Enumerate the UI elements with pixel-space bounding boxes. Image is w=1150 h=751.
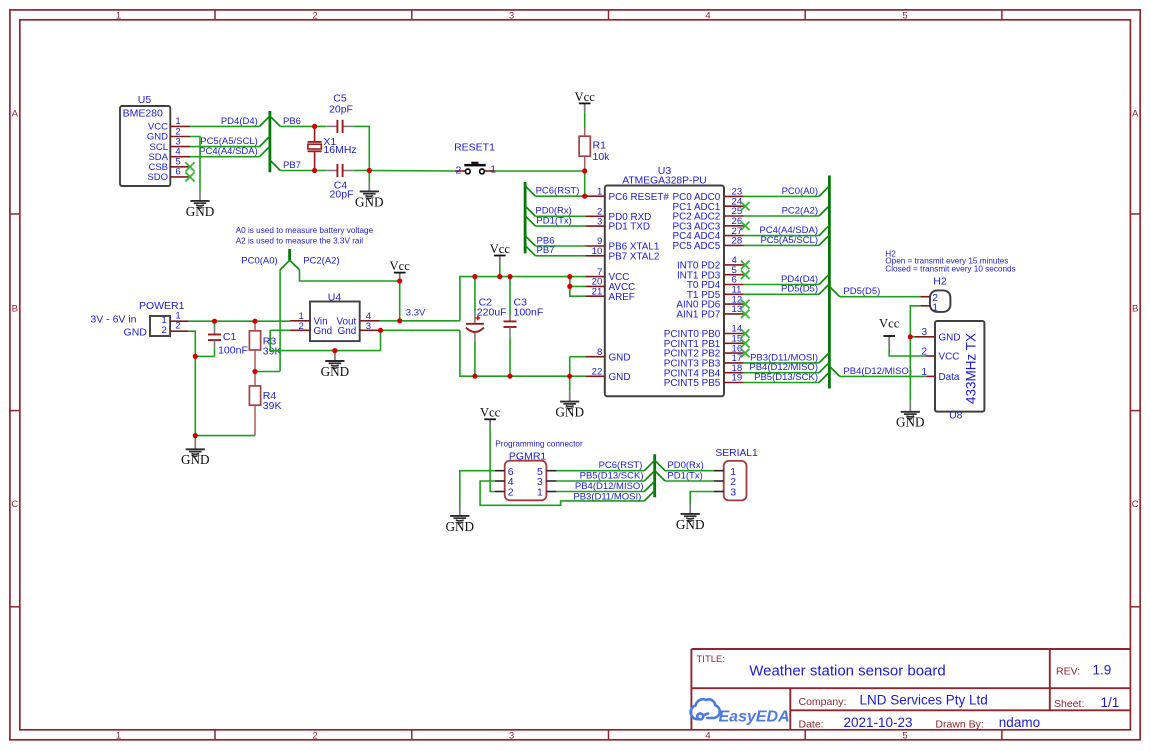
svg-text:A: A bbox=[12, 109, 19, 120]
svg-text:REV:: REV: bbox=[1056, 666, 1080, 678]
wire U3 to net PC0(A0) bbox=[744, 195, 819, 197]
svg-text:Programming connector: Programming connector bbox=[495, 440, 583, 449]
bus entry PD1(Tx) bbox=[525, 216, 535, 226]
wire 3.3V rail to U3 VCC pin 7 bbox=[460, 277, 585, 321]
wire AREF pin 21 bbox=[570, 286, 585, 296]
wire ground rail to U3 GND pin 22 bbox=[460, 330, 585, 376]
bus stub PC0/PC2 bbox=[288, 249, 291, 260]
junction PC2/Vcc node bbox=[397, 278, 402, 283]
wire PD5 to H2 pin 2 bbox=[840, 296, 921, 298]
ground below U5 bbox=[186, 191, 215, 219]
PGMR1 pin 3 stub bbox=[546, 480, 556, 482]
wire RESET1 pin1 to R1 bottom bbox=[495, 170, 585, 172]
wire POWER1 pin1 to U4 Vin bbox=[189, 320, 291, 322]
wire U3 to net PC2(A2) bbox=[744, 215, 819, 217]
PGMR1 pin 4 stub bbox=[495, 480, 505, 482]
U3 pin 17 PCINT3 PB3 bbox=[664, 353, 744, 369]
crystal X1 16MHz bbox=[308, 126, 357, 170]
svg-text:Vcc: Vcc bbox=[575, 90, 596, 104]
svg-text:1: 1 bbox=[537, 487, 543, 499]
svg-text:2: 2 bbox=[299, 321, 304, 332]
junction crystal caps GND node bbox=[367, 168, 372, 173]
svg-text:PD0(Rx): PD0(Rx) bbox=[667, 460, 703, 471]
bus segment left of U3 bbox=[524, 182, 527, 253]
bus exit PB4(D12/MISO) to U8 bbox=[829, 366, 839, 376]
capacitor C4 20pF bbox=[326, 164, 354, 177]
U3 pin 25 PC2 ADC2 bbox=[673, 206, 744, 222]
ground below SERIAL1 bbox=[676, 504, 705, 532]
wire SERIAL1 pin3 to ground bbox=[690, 492, 714, 504]
bus entry PC4(A4/SDA) bbox=[260, 146, 270, 156]
ground below U3 rail bbox=[555, 376, 584, 419]
svg-text:B: B bbox=[1132, 304, 1138, 315]
bus entry PD0(Rx) bbox=[525, 206, 535, 216]
wire C5 right down to GND node bbox=[354, 126, 370, 170]
svg-text:2021-10-23: 2021-10-23 bbox=[844, 715, 913, 730]
svg-text:20pF: 20pF bbox=[329, 103, 353, 115]
svg-text:28: 28 bbox=[732, 236, 743, 247]
no-connect flag U3 pin 26 bbox=[741, 222, 750, 231]
jumper H2 body bbox=[930, 276, 950, 314]
svg-text:PD5(D5): PD5(D5) bbox=[781, 284, 818, 295]
SERIAL1 pin 3 stub bbox=[714, 491, 724, 493]
wire PGMR1 pin4 PB3(D11/MOSI) bbox=[480, 481, 644, 505]
U5 pin 4 SDA bbox=[148, 147, 190, 163]
svg-text:3: 3 bbox=[921, 327, 927, 338]
svg-text:Vcc: Vcc bbox=[879, 317, 900, 331]
svg-text:220uF: 220uF bbox=[477, 307, 507, 319]
svg-text:RESET1: RESET1 bbox=[454, 141, 495, 153]
wire Vcc to U8 pin2 bbox=[889, 348, 925, 356]
bus entry PC0(A0) bbox=[819, 186, 829, 196]
capacitor C5 20pF bbox=[326, 120, 354, 133]
bus segment right of U3 bbox=[828, 176, 831, 389]
H2 pin 2 bbox=[920, 296, 930, 298]
svg-text:PB5(D13/SCK): PB5(D13/SCK) bbox=[754, 372, 818, 383]
svg-text:ATMEGA328P-PU: ATMEGA328P-PU bbox=[622, 175, 707, 186]
bus entry PB5(D13/SCK) bbox=[819, 372, 829, 382]
U3 pin 5 INT1 PD3 bbox=[677, 265, 744, 281]
svg-text:PC5(A5/SCL): PC5(A5/SCL) bbox=[760, 235, 818, 246]
bus exit PB6 bbox=[270, 116, 280, 126]
wire net PB6 to U3 bbox=[536, 245, 586, 247]
ground below U4 bbox=[321, 351, 350, 379]
power flag Vcc (3.3V rail) bbox=[390, 259, 411, 281]
svg-text:2: 2 bbox=[175, 321, 180, 332]
svg-text:16MHz: 16MHz bbox=[323, 144, 356, 156]
bus entry PC6(RST) bbox=[644, 460, 654, 470]
wire net PD0(Rx) to U3 bbox=[536, 215, 586, 217]
wire U3 to net PD5(D5) bbox=[744, 293, 819, 295]
bus entry PC2(A2) bbox=[290, 260, 300, 270]
svg-text:PC0(A0): PC0(A0) bbox=[782, 186, 818, 197]
svg-text:GND: GND bbox=[676, 517, 705, 532]
bus entry PD4(D4) bbox=[819, 274, 829, 284]
wire Vcc to PGMR1 pin2 bbox=[490, 428, 495, 491]
U5 pin 5 CSB bbox=[148, 157, 190, 173]
svg-text:Date:: Date: bbox=[799, 718, 824, 730]
svg-text:R1: R1 bbox=[593, 140, 607, 152]
bus entry PB3(D11/MOSI) bbox=[819, 353, 829, 363]
svg-text:5: 5 bbox=[902, 10, 907, 21]
POWER1 pin 1 bbox=[170, 311, 189, 322]
svg-text:GND: GND bbox=[939, 332, 961, 343]
U3 pin 12 AIN0 PD6 bbox=[676, 294, 743, 310]
svg-text:EasyEDA: EasyEDA bbox=[719, 708, 790, 725]
svg-text:2: 2 bbox=[312, 730, 317, 741]
U4 pin 3 Gnd bbox=[360, 321, 380, 332]
svg-text:3V - 6V in: 3V - 6V in bbox=[90, 314, 136, 326]
wire U4 Gnd right to rail riser bbox=[380, 329, 460, 331]
svg-text:PB7: PB7 bbox=[537, 245, 555, 256]
junction C2 top bbox=[472, 274, 477, 279]
U3 pin 3 PD1 TXD bbox=[585, 216, 650, 232]
svg-text:ndamo: ndamo bbox=[999, 715, 1040, 730]
bus entry PC2(A2) bbox=[819, 206, 829, 216]
svg-text:1: 1 bbox=[597, 186, 602, 197]
wire U3 to net PB5(D13/SCK) bbox=[744, 382, 819, 384]
power flag Vcc (above C2 C3 rail) bbox=[490, 242, 511, 265]
svg-text:3: 3 bbox=[597, 216, 602, 227]
U4 pin 2 Gnd bbox=[290, 321, 310, 332]
ground below PGMR1 bbox=[446, 506, 475, 534]
wire Vcc to rail bbox=[499, 265, 501, 277]
wire PGMR1 pin3 PB5(D13/SCK) bbox=[556, 480, 644, 482]
svg-text:TITLE:: TITLE: bbox=[697, 654, 726, 665]
svg-text:3.3V: 3.3V bbox=[406, 307, 426, 318]
wire PGMR1 pin1 PB4(D12/MISO) bbox=[556, 491, 644, 493]
wire Vcc to R1 top bbox=[584, 112, 586, 127]
no-connect flag U3 pin 13 bbox=[741, 310, 750, 319]
svg-text:GND: GND bbox=[355, 194, 384, 209]
bus exit PD0(Rx) bbox=[655, 460, 665, 470]
svg-text:4: 4 bbox=[705, 730, 710, 741]
U8 pin 2 VCC bbox=[921, 346, 959, 362]
svg-text:H2: H2 bbox=[933, 276, 947, 288]
wire GND node to RESET1 pin 2 bbox=[369, 170, 455, 173]
capacitor C1 100nF bbox=[208, 321, 248, 356]
svg-text:21: 21 bbox=[592, 286, 603, 297]
svg-text:6: 6 bbox=[175, 167, 180, 178]
svg-text:3: 3 bbox=[366, 321, 371, 332]
U4 pin 1 Vin bbox=[290, 311, 310, 322]
wire U4 Vout to rail riser bbox=[380, 320, 460, 322]
svg-text:3: 3 bbox=[509, 730, 514, 741]
svg-text:PC0(A0): PC0(A0) bbox=[241, 255, 277, 266]
wire ground to U8 pin3 bbox=[910, 336, 915, 338]
no-connect flag U5 pin 6 SDO bbox=[185, 172, 194, 181]
bus exit PD1(Tx) bbox=[655, 471, 665, 481]
svg-text:39K: 39K bbox=[263, 400, 282, 412]
svg-text:10k: 10k bbox=[593, 151, 611, 163]
wire H2 pin1 down to ground bbox=[910, 306, 920, 402]
U3 pin 13 AIN1 PD7 bbox=[676, 304, 743, 320]
PGMR1 pin 2 stub bbox=[495, 491, 505, 493]
svg-text:A2 is used to measure the 3.3V: A2 is used to measure the 3.3V rail bbox=[236, 237, 364, 246]
U3 pin 23 PC0 ADC0 bbox=[673, 187, 744, 203]
svg-text:1: 1 bbox=[932, 301, 938, 313]
svg-text:A: A bbox=[1132, 109, 1139, 120]
svg-text:1: 1 bbox=[116, 730, 121, 741]
svg-text:PB6: PB6 bbox=[283, 116, 301, 127]
svg-text:B: B bbox=[12, 304, 18, 315]
svg-text:13: 13 bbox=[732, 304, 743, 315]
svg-text:AREF: AREF bbox=[609, 292, 635, 303]
svg-text:19: 19 bbox=[732, 373, 743, 384]
connector POWER1 body bbox=[139, 300, 185, 336]
wire PC0 net vertical bbox=[279, 270, 281, 372]
U3 pin 26 PC3 ADC3 bbox=[673, 216, 744, 232]
svg-text:AIN1 PD7: AIN1 PD7 bbox=[676, 310, 720, 321]
svg-text:GND: GND bbox=[609, 352, 631, 363]
bus entry PD4(D4) bbox=[260, 116, 270, 126]
svg-text:C: C bbox=[11, 499, 18, 510]
wire PD1 to SERIAL1 pin2 bbox=[665, 480, 714, 482]
svg-text:GND: GND bbox=[124, 326, 148, 338]
wire PB6 to C5 bbox=[280, 125, 326, 127]
bus entry PB6 bbox=[525, 236, 535, 246]
junction AVCC on rail bbox=[567, 274, 572, 279]
svg-text:1: 1 bbox=[921, 367, 927, 378]
svg-text:Data: Data bbox=[939, 372, 960, 383]
bus entry PC5(A5/SCL) bbox=[819, 235, 829, 245]
connector PGMR1 body bbox=[505, 451, 547, 501]
wire U3 to net PD4(D4) bbox=[744, 284, 819, 286]
wire pin 8 down to ground rail bbox=[569, 357, 571, 377]
svg-text:PB7: PB7 bbox=[283, 160, 301, 171]
svg-text:PC4(A4/SDA): PC4(A4/SDA) bbox=[199, 146, 258, 157]
bus entry PC6(RST) bbox=[525, 186, 535, 196]
regulator U4 body bbox=[310, 291, 360, 341]
module U8 433MHz TX body bbox=[935, 321, 984, 422]
U3 pin 15 PCINT1 PB1 bbox=[664, 334, 744, 350]
power flag Vcc (above U8 VCC) bbox=[879, 317, 900, 349]
pushbutton RESET1 bbox=[454, 141, 496, 176]
svg-text:Vcc: Vcc bbox=[390, 259, 411, 273]
bus segment near U5 bbox=[268, 111, 271, 172]
power flag Vcc (above R1) bbox=[575, 90, 596, 113]
junction 3.3V rail bbox=[397, 318, 402, 323]
capacitor C2 220uF polarized bbox=[466, 277, 507, 377]
svg-text:PCINT5 PB5: PCINT5 PB5 bbox=[664, 378, 721, 389]
wire C1 bottom to ground net bbox=[195, 355, 214, 357]
title block grid bbox=[691, 649, 1130, 730]
svg-text:LND Services Pty Ltd: LND Services Pty Ltd bbox=[860, 692, 988, 707]
junction R3-R4 divider node bbox=[252, 369, 257, 374]
svg-text:GND: GND bbox=[181, 452, 210, 467]
junction ground corner POWER1 bbox=[193, 433, 198, 438]
note A0/A2 usage bbox=[236, 226, 374, 246]
PGMR1 pin 6 stub bbox=[495, 470, 505, 472]
U5 pin 3 SCL bbox=[150, 136, 190, 152]
svg-text:Vcc: Vcc bbox=[490, 242, 511, 256]
EasyEDA logo bbox=[691, 699, 720, 719]
svg-text:BME280: BME280 bbox=[123, 108, 163, 120]
wire net PB7 to U3 bbox=[536, 255, 586, 257]
junction X1 top on PB6 bbox=[312, 124, 317, 129]
svg-text:PB5(D13/SCK): PB5(D13/SCK) bbox=[580, 471, 644, 482]
svg-text:PD1(Tx): PD1(Tx) bbox=[667, 471, 702, 482]
wire R1 bottom down to PC6 net bbox=[584, 171, 586, 196]
wire U4 Gnd down bbox=[380, 330, 382, 350]
bus entry PD5(D5) bbox=[819, 284, 829, 294]
bus entry PC0(A0) bbox=[280, 260, 290, 270]
label C5 20pF bbox=[329, 92, 353, 115]
no-connect flag U3 pin 12 bbox=[741, 300, 750, 309]
svg-text:C: C bbox=[1132, 499, 1139, 510]
svg-text:5: 5 bbox=[902, 730, 907, 741]
H2 pin 1 bbox=[920, 305, 930, 307]
no-connect flag U3 pin 5 bbox=[741, 270, 750, 279]
svg-text:1.9: 1.9 bbox=[1093, 663, 1112, 678]
sensor U5 BME280 body bbox=[120, 94, 170, 186]
svg-text:3: 3 bbox=[509, 10, 514, 21]
connector SERIAL1 body bbox=[715, 448, 758, 500]
svg-text:PC6 RESET#: PC6 RESET# bbox=[609, 192, 670, 203]
wire net PC6(RST) to U3 bbox=[536, 195, 586, 197]
svg-text:22: 22 bbox=[592, 367, 603, 378]
svg-text:GND: GND bbox=[446, 519, 475, 534]
svg-text:GND: GND bbox=[896, 415, 925, 430]
svg-text:3: 3 bbox=[730, 487, 736, 499]
ground below H2/U8 bbox=[896, 401, 925, 429]
svg-text:PD1 TXD: PD1 TXD bbox=[609, 222, 651, 233]
note H2 jumper usage bbox=[885, 249, 1015, 273]
wire PGMR1 pin5 PC6(RST) bbox=[556, 470, 644, 472]
U3 pin 24 PC1 ADC1 bbox=[673, 196, 744, 212]
junction U8 GND net bbox=[908, 334, 913, 339]
svg-text:PC5 ADC5: PC5 ADC5 bbox=[673, 241, 721, 252]
svg-text:8: 8 bbox=[597, 347, 602, 358]
U3 pin 6 T0 PD4 bbox=[687, 275, 744, 291]
wire ground to R4 bottom bbox=[195, 435, 255, 437]
bus entry PB5(D13/SCK) bbox=[644, 471, 654, 481]
U3 pin 9 PB6 XTAL1 bbox=[585, 236, 660, 252]
junction R1 bottom bbox=[582, 168, 587, 173]
wire U4 pin2 stub wire bbox=[270, 329, 290, 331]
U3 pin 19 PCINT5 PB5 bbox=[664, 373, 744, 389]
svg-text:433MHz TX: 433MHz TX bbox=[963, 333, 978, 404]
svg-text:C1: C1 bbox=[223, 331, 237, 343]
svg-text:GND: GND bbox=[609, 372, 631, 383]
svg-text:Gnd: Gnd bbox=[338, 326, 357, 337]
junction X1 bottom on PB7 bbox=[312, 168, 317, 173]
wire PGMR1 pin6 to ground bbox=[460, 471, 495, 506]
wire U3 to net PC4(A4/SDA) bbox=[744, 235, 819, 237]
wire PB4 to U8 Data bbox=[840, 375, 927, 377]
svg-text:2: 2 bbox=[312, 10, 317, 21]
U3 pin 10 PB7 XTAL2 bbox=[585, 246, 659, 262]
svg-text:PC6(RST): PC6(RST) bbox=[536, 186, 580, 197]
bus entry PC4(A4/SDA) bbox=[819, 225, 829, 235]
U5 pin 2 GND bbox=[147, 126, 190, 142]
U3 pin 22 GND bbox=[585, 367, 630, 383]
U8 pin 1 Data bbox=[921, 367, 959, 383]
svg-text:PD4(D4): PD4(D4) bbox=[221, 116, 258, 127]
svg-text:PC2(A2): PC2(A2) bbox=[303, 256, 339, 267]
ground below POWER1 bbox=[181, 436, 210, 468]
svg-text:2: 2 bbox=[455, 164, 461, 176]
junction C3 bottom bbox=[507, 374, 512, 379]
svg-text:SERIAL1: SERIAL1 bbox=[715, 448, 758, 459]
junction PC6 reset net bbox=[582, 194, 587, 199]
no-connect flag U5 pin 5 CSB bbox=[185, 162, 194, 171]
svg-text:10: 10 bbox=[592, 246, 603, 257]
wire divider node to PC0 net bbox=[255, 371, 280, 373]
U3 pin 2 PD0 RXD bbox=[585, 207, 651, 223]
wire PC2 net to Vcc node bbox=[300, 270, 400, 281]
PGMR1 pin 5 stub bbox=[546, 470, 556, 472]
bus entry PB4(D12/MISO) bbox=[819, 362, 829, 372]
junction U4 ground net bbox=[332, 348, 337, 353]
svg-text:PB3(D11/MOSI): PB3(D11/MOSI) bbox=[573, 492, 641, 503]
wire U5 SCL to net PC5(A5/SCL) bbox=[190, 146, 260, 148]
label C4 20pF bbox=[330, 179, 354, 200]
U3 pin 14 PCINT0 PB0 bbox=[664, 324, 744, 340]
svg-text:Drawn By:: Drawn By: bbox=[935, 718, 983, 730]
junction ground rail bbox=[567, 374, 572, 379]
wire U3 to net PC5(A5/SCL) bbox=[744, 244, 819, 246]
power flag Vcc (above PGMR1) bbox=[480, 406, 501, 429]
svg-text:Company:: Company: bbox=[799, 696, 847, 708]
svg-text:GND: GND bbox=[555, 405, 584, 420]
bus exit PB7 bbox=[270, 160, 280, 170]
U3 pin 20 AVCC bbox=[585, 277, 635, 293]
svg-text:1: 1 bbox=[490, 164, 496, 176]
U3 pin 21 AREF bbox=[585, 286, 635, 302]
U3 pin 1 PC6 RESET# bbox=[585, 186, 669, 202]
svg-text:2: 2 bbox=[162, 325, 167, 336]
resistor R3 39K bbox=[249, 321, 281, 371]
svg-text:U5: U5 bbox=[138, 94, 152, 106]
wire Vcc node down to 3.3V rail bbox=[399, 281, 401, 321]
no-connect flag U3 pin 16 bbox=[741, 349, 750, 358]
no-connect flag U3 pin 15 bbox=[741, 339, 750, 348]
U3 pin 4 INT0 PD2 bbox=[677, 255, 744, 271]
svg-text:4: 4 bbox=[705, 10, 710, 21]
svg-text:PD5(D5): PD5(D5) bbox=[843, 286, 880, 297]
ground below C4 bbox=[355, 171, 384, 210]
SERIAL1 pin 2 stub bbox=[714, 480, 724, 482]
bus entry PB7 bbox=[525, 246, 535, 256]
wire C4 right to GND node bbox=[354, 170, 370, 172]
svg-text:VCC: VCC bbox=[939, 352, 960, 363]
bus entry PB4(D12/MISO) bbox=[644, 481, 654, 491]
bus segment PGMR1/SERIAL1 bbox=[653, 454, 656, 497]
svg-text:PC6(RST): PC6(RST) bbox=[599, 460, 643, 471]
resistor R1 10k bbox=[579, 128, 610, 172]
wire U3 to net PB3(D11/MOSI) bbox=[744, 362, 819, 364]
junction C1 top bbox=[212, 319, 217, 324]
resistor R4 39K bbox=[249, 372, 281, 436]
U5 pin 1 VCC bbox=[148, 116, 190, 132]
no-connect flag U3 pin 24 bbox=[741, 202, 750, 211]
U3 pin 11 T1 PD5 bbox=[687, 285, 744, 301]
IC U3 ATMEGA328P-PU body bbox=[605, 165, 724, 396]
svg-text:GND: GND bbox=[186, 204, 215, 219]
svg-text:PD1(Tx): PD1(Tx) bbox=[536, 216, 571, 227]
svg-text:1: 1 bbox=[116, 10, 121, 21]
wire PB7 to C4 bbox=[280, 170, 326, 172]
svg-text:Gnd: Gnd bbox=[314, 326, 333, 337]
svg-text:2: 2 bbox=[508, 487, 514, 499]
bus entry PB3(D11/MOSI) bbox=[644, 491, 654, 501]
svg-text:Vcc: Vcc bbox=[480, 406, 501, 420]
wire U3 to net PB4(D12/MISO) bbox=[744, 372, 819, 374]
U3 pin 16 PCINT2 PB2 bbox=[664, 343, 744, 359]
junction R3 top bbox=[252, 319, 257, 324]
wire U4 left Gnd loop bbox=[270, 330, 380, 350]
